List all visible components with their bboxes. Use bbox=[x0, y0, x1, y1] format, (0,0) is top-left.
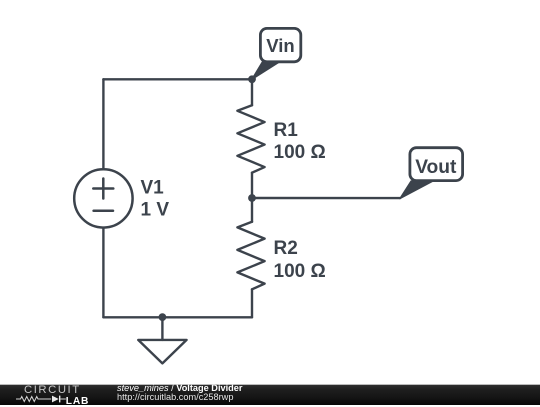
net flag Vin pointer tail bbox=[252, 62, 280, 80]
svg-text:1 V: 1 V bbox=[141, 200, 170, 221]
resistor R1 body zigzag bbox=[237, 105, 264, 173]
svg-text:R1: R1 bbox=[274, 120, 299, 141]
svg-text:Vout: Vout bbox=[415, 157, 457, 178]
voltage source V1 (circle with plus and minus) bbox=[74, 169, 132, 227]
wire R2 top lead (Vout node to R2 body) bbox=[251, 198, 253, 222]
net flag Vout pointer tail bbox=[400, 181, 433, 199]
svg-text:V1: V1 bbox=[141, 178, 165, 199]
ground symbol bbox=[138, 340, 186, 364]
CircuitLab logo wordmark CIRCUIT bbox=[24, 385, 81, 396]
svg-text:100 Ω: 100 Ω bbox=[274, 142, 326, 163]
footer url text bbox=[117, 393, 233, 402]
R1 value label (R1 / 100 Ohm) bbox=[274, 120, 326, 163]
wire R1 top lead (Vin node to R1 body) bbox=[251, 79, 253, 105]
wire left upper (top wire to V1 plus terminal) bbox=[102, 79, 104, 169]
svg-text:Vin: Vin bbox=[266, 35, 294, 56]
wire bottom (V1 to R2 bottom) bbox=[103, 316, 252, 318]
footer title text bbox=[117, 384, 242, 393]
node Vin junction dot bbox=[248, 75, 256, 83]
CircuitLab logo resistor-diode glyph bbox=[0, 385, 95, 406]
wire top (V1 top to Vin node) bbox=[103, 78, 252, 80]
V1 value label (V1 / 1 V) bbox=[141, 178, 170, 221]
node ground junction dot bbox=[159, 313, 167, 321]
net flag Vin box bbox=[260, 28, 300, 61]
wire ground stub bbox=[161, 317, 163, 340]
svg-text:R2: R2 bbox=[274, 238, 298, 259]
wire middle (Vout node to Vout flag) bbox=[252, 197, 400, 200]
wire left lower (V1 minus terminal to bottom wire) bbox=[102, 228, 104, 318]
net flag Vout box bbox=[410, 148, 463, 181]
footer bar bbox=[0, 385, 540, 405]
node Vout junction dot bbox=[248, 194, 256, 202]
R2 value label (R2 / 100 Ohm) bbox=[274, 238, 326, 282]
svg-text:100 Ω: 100 Ω bbox=[274, 261, 326, 282]
wire R1 bottom lead (R1 body to Vout node) bbox=[251, 173, 253, 198]
CircuitLab logo wordmark LAB bbox=[66, 397, 89, 407]
wire R2 bottom lead (R2 body to bottom wire) bbox=[251, 289, 253, 317]
resistor R2 body zigzag bbox=[237, 222, 264, 289]
footer bar top edge bbox=[0, 384, 540, 385]
